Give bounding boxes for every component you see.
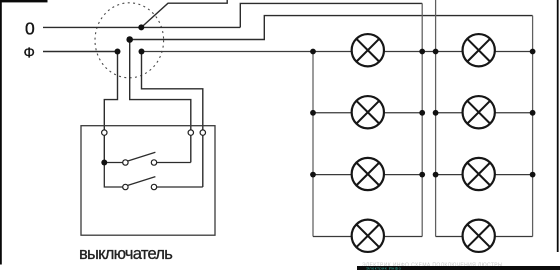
junction box (dashed circle) bbox=[95, 3, 164, 78]
junction dot row1 bus2 bbox=[419, 49, 425, 55]
junction dot E switch common bbox=[101, 160, 107, 166]
svg-text:Электрик Инфо: Электрик Инфо bbox=[366, 266, 402, 270]
junction dot row3 bus3 bbox=[433, 172, 439, 178]
wire phase Ф horizontal bbox=[43, 51, 118, 53]
wire switched line 1 to right lamp group bbox=[130, 16, 533, 40]
bus left group phase bbox=[312, 52, 314, 237]
wire inside switch: common to contact 1 bbox=[104, 162, 123, 164]
wire neutral branch diagonal bbox=[141, 0, 227, 27]
wire switched line 2 to left lamp group bbox=[142, 51, 352, 53]
junction dot row3 bus4 bbox=[530, 172, 536, 178]
watermark bar bbox=[357, 266, 560, 270]
wire lamp row 3 left bbox=[313, 174, 422, 176]
junction dot row3 bus2 bbox=[419, 172, 425, 178]
lamp EL4 bbox=[352, 220, 384, 252]
wire switch terminal 3 return bbox=[142, 52, 203, 188]
junction dot row1 bus4 bbox=[530, 49, 536, 55]
lamp EL3 bbox=[352, 158, 384, 190]
wire neutral riser bbox=[240, 3, 422, 27]
switch S2 contact left bbox=[123, 184, 128, 189]
lamp EL2 bbox=[352, 96, 384, 128]
bus right group neutral bbox=[435, 0, 437, 237]
border right edge bbox=[557, 0, 559, 252]
wire lamp row 4 right bbox=[436, 236, 533, 238]
switch S2 contact right bbox=[151, 184, 156, 189]
wire lamp row 3 right bbox=[436, 174, 533, 176]
junction dot row1 bus3 bbox=[433, 49, 439, 55]
wire switch 2 output bbox=[157, 186, 203, 188]
junction dot A neutral tap bbox=[138, 24, 144, 30]
junction dot row2 bus1 bbox=[310, 110, 316, 116]
lamp EL1 bbox=[352, 34, 384, 66]
lamp EL7 bbox=[463, 158, 495, 190]
wire switch 1 output bbox=[157, 162, 191, 164]
lamp EL5 bbox=[463, 34, 495, 66]
svg-text:выключатель: выключатель bbox=[79, 245, 172, 263]
junction dot row3 bus1 bbox=[310, 172, 316, 178]
junction dot D switched line 2 bbox=[139, 49, 145, 55]
terminal T3 bbox=[200, 130, 205, 135]
switch S1 blade bbox=[128, 152, 156, 161]
border top-left edge bbox=[0, 0, 48, 2]
junction dot C phase in bbox=[115, 49, 121, 55]
junction dot row1 bus1 bbox=[310, 49, 316, 55]
svg-text:Ф: Ф bbox=[24, 45, 35, 62]
switch S1 contact left bbox=[123, 160, 128, 165]
switch S2 blade bbox=[128, 177, 156, 186]
wire inside switch: common down bbox=[104, 163, 123, 188]
switch box bbox=[81, 126, 215, 236]
border left edge bbox=[0, 0, 2, 265]
bus right group phase bbox=[532, 16, 534, 237]
terminal T1 bbox=[102, 130, 107, 135]
junction dot row2 bus2 bbox=[419, 110, 425, 116]
wire lamp row 4 left bbox=[313, 236, 422, 238]
svg-text:0: 0 bbox=[25, 19, 35, 39]
junction dot B switched line 1 bbox=[126, 36, 133, 43]
lamp EL8 bbox=[463, 220, 495, 252]
switch S1 contact right bbox=[151, 160, 156, 165]
wire lamp row 2 right bbox=[436, 112, 533, 114]
terminal T2 bbox=[188, 130, 193, 135]
wire neutral 0 horizontal bbox=[43, 26, 240, 28]
bus left group neutral bbox=[421, 3, 423, 236]
junction dot row2 bus3 bbox=[433, 110, 439, 116]
lamp EL6 bbox=[463, 96, 495, 128]
wire lamp row 1 bbox=[351, 51, 532, 53]
wire phase to switch terminal 1 bbox=[104, 52, 117, 163]
wire lamp row 2 left bbox=[313, 112, 422, 114]
wire switch terminal 2 return bbox=[130, 40, 191, 163]
junction dot row2 bus4 bbox=[530, 110, 536, 116]
